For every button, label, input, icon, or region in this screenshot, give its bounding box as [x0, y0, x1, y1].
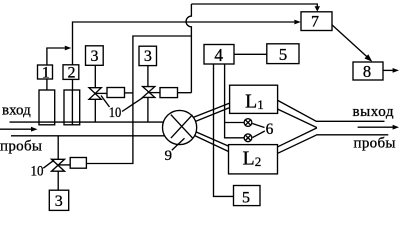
svg-text:выход: выход: [353, 104, 394, 120]
svg-text:вход: вход: [2, 102, 31, 118]
svg-text:1: 1: [42, 64, 50, 81]
pipe L2 to outlet outer: [278, 135, 389, 154]
svg-text:L1: L1: [245, 91, 264, 113]
svg-text:10: 10: [109, 105, 122, 121]
svg-text:L2: L2: [243, 147, 262, 169]
arrow 7 to 8: [332, 25, 367, 57]
box 5b: [234, 186, 261, 206]
wire box4 to box5b: [214, 64, 234, 196]
svg-text:2: 2: [68, 65, 76, 82]
valve V3: [52, 159, 65, 171]
arrowhead into box 7 top: [315, 6, 320, 11]
wire top net to box 7: [191, 4, 317, 7]
svg-text:9: 9: [164, 148, 172, 164]
svg-text:пробы: пробы: [354, 135, 396, 151]
net vertical with hop over wire: [186, 4, 191, 93]
box L2: [229, 145, 278, 174]
mixer 9: [163, 110, 197, 144]
link valve V3 to restrictor 3: [58, 164, 70, 166]
valve V2: [143, 87, 155, 98]
stem box2 to column K2: [72, 79, 74, 90]
stem valve V1 to main line: [94, 99, 96, 122]
svg-text:5: 5: [242, 190, 250, 207]
wire branch to detector D1: [225, 122, 245, 124]
link valve V2 to restrictor 2: [148, 92, 160, 94]
box 7: [301, 12, 332, 31]
svg-text:3: 3: [55, 193, 63, 210]
stem line2 to valve V3: [57, 136, 59, 160]
stem valve V3 to box 3c: [57, 171, 59, 190]
valve V1: [89, 88, 101, 100]
main line 2: [11, 135, 165, 137]
wire net branch to bottom restrictor: [86, 36, 191, 164]
box 3b: [139, 46, 157, 65]
pipe L2 to outlet inner: [278, 128, 317, 147]
pipe mixer to L2 lower: [195, 136, 229, 152]
svg-text:пробы: пробы: [0, 139, 42, 155]
restrictor 2: [160, 88, 178, 98]
link valve V1 to restrictor 1: [95, 92, 107, 94]
pipe L1 to outlet inner: [278, 109, 317, 128]
svg-text:7: 7: [311, 14, 319, 31]
вход arrow: [0, 128, 33, 130]
stem valve V2 to main line: [147, 97, 149, 122]
detector D2: [244, 134, 252, 142]
wire box1 riser to box2 riser: [47, 48, 66, 65]
restrictor 1: [107, 88, 125, 98]
pipe mixer to L1 lower: [196, 108, 230, 122]
box 5a: [267, 44, 299, 64]
stem 3b to valve V2: [147, 66, 149, 87]
box 3c: [49, 190, 68, 210]
box L1: [230, 85, 278, 113]
arrowhead into box 7 left: [294, 20, 301, 25]
svg-text:8: 8: [363, 62, 371, 81]
link restrictor 1 to net: [125, 92, 133, 94]
column K1: [39, 90, 55, 125]
link box4 to box5a: [234, 53, 267, 55]
column K2 divider: [71, 90, 73, 125]
box 4: [204, 45, 234, 65]
arrowhead into riser2: [65, 46, 72, 51]
arrow out of box 8: [383, 69, 393, 71]
box 3a: [86, 46, 104, 66]
pipe mixer to L2 upper: [196, 132, 229, 146]
выход arrow: [358, 126, 394, 128]
svg-text:3: 3: [91, 48, 99, 65]
wire box4 to detector D2: [225, 64, 245, 138]
column K2: [64, 90, 80, 125]
svg-text:3: 3: [144, 48, 152, 65]
detector D1: [244, 119, 252, 127]
restrictor 3: [70, 158, 86, 169]
stem box1 to column K1: [46, 79, 48, 90]
pipe mixer to L1 upper: [193, 103, 229, 117]
pipe L1 to outlet outer: [278, 100, 385, 121]
box 2: [63, 65, 79, 80]
link restrictor 2 to net: [178, 92, 192, 94]
svg-text:6: 6: [266, 121, 274, 138]
svg-text:5: 5: [279, 45, 288, 64]
stem 3a to valve V1: [94, 65, 96, 87]
box 8: [353, 62, 383, 80]
main line 1: [10, 121, 164, 123]
svg-text:4: 4: [214, 45, 223, 65]
wire box2 riser to controller 7: [73, 22, 295, 65]
box 1: [38, 65, 53, 79]
svg-text:10: 10: [31, 164, 44, 180]
